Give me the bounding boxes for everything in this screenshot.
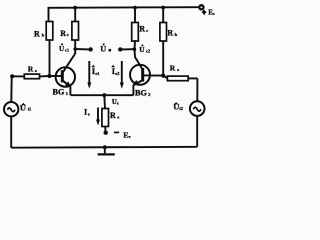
svg-text:R: R	[139, 24, 145, 33]
wire output tap right	[122, 48, 135, 50]
wire emitter node to Re	[103, 95, 106, 108]
current arrow Ie2	[120, 61, 124, 89]
label Rb2	[167, 29, 177, 38]
resistor Rb1	[46, 22, 53, 41]
svg-text:b: b	[42, 33, 45, 38]
label -Ee	[114, 131, 131, 140]
wire base lead BG1	[50, 75, 63, 77]
wire base lead BG2	[143, 74, 163, 76]
svg-text:U: U	[173, 102, 179, 112]
label +Ec	[202, 8, 215, 16]
current arrow Ie1	[87, 61, 91, 89]
svg-text:U: U	[100, 45, 106, 54]
current arrow Ie	[96, 108, 100, 126]
svg-text:R: R	[28, 64, 34, 73]
resistor Re	[102, 109, 109, 132]
wire bottom rail	[11, 146, 197, 149]
label Ie1	[91, 65, 99, 76]
svg-text:R: R	[34, 29, 40, 38]
svg-text:U: U	[139, 45, 145, 54]
wire Rb1 to base node	[49, 40, 51, 76]
node ground junction	[103, 145, 107, 149]
svg-text:R: R	[170, 64, 176, 73]
svg-text:BG: BG	[135, 88, 147, 97]
node base junction BG1	[47, 74, 51, 78]
node junction Uc2	[133, 47, 137, 51]
label Rs2	[170, 64, 180, 73]
label Ue	[112, 99, 119, 106]
label Ie2	[111, 65, 119, 76]
source Ui2	[190, 101, 205, 116]
label Ui1	[20, 103, 31, 113]
svg-text:s: s	[35, 68, 37, 73]
label Re	[110, 111, 119, 120]
resistor Rb2	[160, 8, 167, 42]
label Uc1	[59, 43, 69, 53]
node junction Rc1 top	[73, 6, 77, 10]
node emitter junction	[102, 93, 106, 97]
svg-text:R: R	[110, 111, 116, 120]
svg-text:c: c	[67, 32, 69, 37]
svg-text:e: e	[129, 134, 131, 139]
svg-text:U: U	[20, 103, 26, 113]
wire emitter rail	[70, 94, 133, 96]
label Rc2	[139, 24, 148, 33]
label Uc2	[139, 44, 150, 53]
svg-text:c: c	[146, 28, 148, 33]
ground	[98, 147, 115, 154]
svg-text:e: e	[117, 115, 119, 120]
transistor BG1	[56, 67, 75, 95]
wire Rc2 to collector BG2	[135, 41, 143, 69]
svg-text:s: s	[177, 67, 179, 72]
label Rb1	[34, 29, 45, 38]
label BG2	[135, 88, 151, 97]
svg-text:c1: c1	[65, 47, 69, 52]
svg-text:R: R	[60, 29, 66, 38]
node junction Rb2 top	[161, 6, 165, 10]
svg-text:b: b	[175, 32, 178, 37]
terminal +Ec	[199, 5, 203, 9]
terminal output left	[88, 47, 92, 51]
label Ui2	[173, 102, 183, 112]
wire output tap left	[75, 48, 89, 50]
label BG1	[53, 88, 69, 97]
resistor Rs1	[12, 74, 49, 79]
svg-text:e: e	[88, 112, 90, 117]
svg-text:BG: BG	[53, 88, 65, 97]
resistor Rc1	[72, 8, 79, 40]
node junction Uc1	[73, 47, 77, 51]
svg-text:i1: i1	[28, 106, 31, 111]
wire Rc1 to collector BG1	[63, 40, 75, 72]
wire left input branch	[10, 76, 13, 147]
resistor Rs2	[163, 76, 197, 81]
svg-text:e2: e2	[115, 71, 119, 76]
wire right input branch	[196, 78, 198, 146]
node base junction BG2	[161, 74, 165, 78]
terminal -Ee	[104, 131, 108, 135]
resistor Rc2	[132, 8, 139, 41]
svg-text:e1: e1	[95, 71, 99, 76]
label Ie	[84, 107, 90, 117]
svg-text:R: R	[167, 29, 173, 38]
wire top supply rail	[49, 7, 199, 21]
svg-text:i2: i2	[180, 106, 183, 111]
svg-text:c2: c2	[146, 48, 150, 53]
label Rs1	[28, 64, 37, 73]
node input left corner	[10, 74, 14, 78]
svg-text:c: c	[213, 11, 215, 16]
wire Rb2 to base node BG2	[162, 41, 164, 76]
svg-text:e: e	[117, 101, 119, 106]
node junction Rc2 top	[133, 6, 137, 10]
source Ui1	[4, 102, 18, 116]
transistor BG2	[130, 65, 150, 95]
terminal output right	[118, 47, 122, 51]
label Rc1	[60, 29, 69, 38]
label Uo	[100, 43, 111, 53]
